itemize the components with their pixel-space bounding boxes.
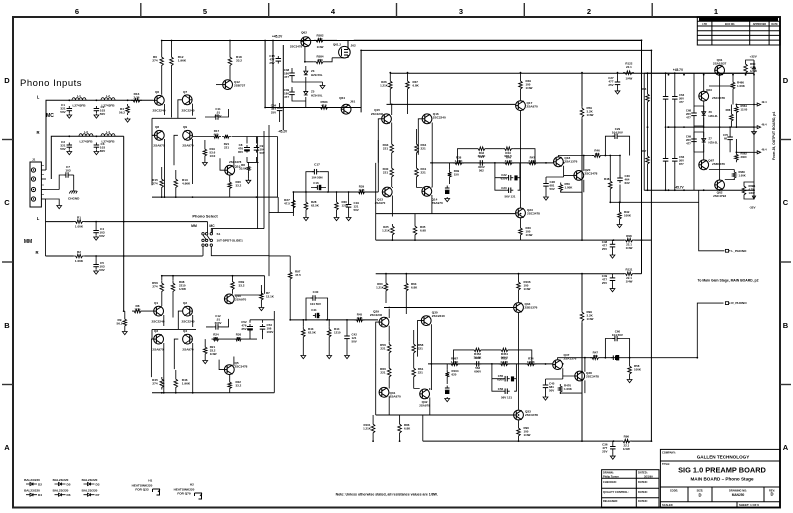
svg-text:22.1: 22.1 [626,65,632,69]
svg-text:600V: 600V [215,321,222,325]
resistor R454 [499,348,510,352]
transistor Q62 [301,37,311,47]
resistor R63 [404,281,408,293]
svg-text:Philip Turner: Philip Turner [603,474,619,478]
svg-text:1.21K: 1.21K [376,285,385,289]
capacitor C49 [612,275,614,278]
svg-text:R68: R68 [726,108,731,112]
svg-text:TITLE:: TITLE: [662,462,670,466]
svg-text:2SC2240: 2SC2240 [370,313,383,317]
wire switch MM side [85,222,290,256]
svg-text:2SA970: 2SA970 [432,201,443,205]
svg-text:2SA970: 2SA970 [527,105,538,109]
capacitor C4 [95,222,97,228]
resistor R27 [292,198,296,210]
wire MC R input [51,136,123,179]
resistor R43C [301,327,305,339]
svg-text:49.4: 49.4 [761,148,767,152]
svg-text:1/4W: 1/4W [179,287,186,291]
ground [259,306,264,311]
ground [752,130,757,135]
ground [544,196,549,201]
svg-text:CODE:: CODE: [670,488,678,492]
resistor R22 [228,380,232,391]
svg-text:2SC3478: 2SC3478 [585,172,598,176]
resistor R28 [304,200,308,212]
ground [203,359,208,364]
svg-text:25V: 25V [608,83,613,87]
resistor R49 [519,79,523,91]
svg-text:2SA970: 2SA970 [152,347,163,351]
ground [246,179,251,184]
resistor R58 [412,342,416,355]
svg-text:1210: 1210 [334,330,341,334]
resistor R35 [413,224,417,237]
wire Q3-Q4 to bottom [151,339,192,393]
svg-text:1.21K: 1.21K [363,426,372,430]
wire upper output node [603,156,725,251]
resistor R74 [525,362,536,366]
svg-text:960.: 960. [214,132,220,136]
svg-text:Q61.2: Q61.2 [333,43,341,47]
wire stage2 top rail [390,72,754,74]
transistor Q6 [154,95,164,105]
resistor R20 [228,180,232,190]
svg-text:3300: 3300 [741,155,747,159]
capacitor C50 [474,363,477,365]
capacitor C84 [279,106,281,109]
svg-text:2.26: 2.26 [359,188,365,192]
svg-text:HZ9-2L: HZ9-2L [709,114,719,118]
transistor Q64 [341,104,351,114]
transistor Q12 [223,80,233,90]
wire MC select verticals [258,125,279,276]
resistor R41 [415,166,419,179]
ground [94,236,99,241]
svg-text:2SC2240: 2SC2240 [432,314,445,318]
wire Q8-Q9 emitters to bottom rail [152,135,193,197]
transistor Q31 [379,387,389,397]
svg-text:C: C [783,198,789,207]
svg-text:600V: 600V [474,369,481,373]
svg-text:274: 274 [152,58,157,62]
ground [203,161,208,166]
capacitor C55 [503,378,506,380]
svg-text:221: 221 [236,336,241,340]
svg-text:BAL23/220: BAL23/220 [53,489,69,493]
resistor R59 [580,106,584,119]
capacitor C21 [478,162,481,164]
resistor R12 [170,55,174,68]
svg-text:3.32K: 3.32K [528,159,537,163]
capacitor C42 [346,334,348,337]
svg-text:35V: 35V [238,150,243,154]
wire feedback loop lower [454,350,532,364]
svg-text:APPROVED: APPROVED [753,23,767,26]
svg-text:50V: 50V [549,388,554,392]
svg-text:-32V: -32V [749,206,755,210]
inductor L4 [101,134,115,137]
capacitor C36 [612,444,614,447]
capacitor C56 [503,390,506,392]
transistor Q8 [154,130,164,140]
resistor R29 [357,190,367,194]
svg-text:J62: J62 [351,44,356,48]
svg-text:2.26: 2.26 [357,316,363,320]
svg-text:221: 221 [380,346,385,350]
capacitor C68 [693,111,695,114]
svg-text:1: 1 [714,7,718,16]
svg-text:C17: C17 [314,163,320,167]
resistor R67 sideways [646,154,650,166]
svg-text:630V: 630V [501,176,508,180]
svg-text:1/4W: 1/4W [317,45,324,49]
capacitor C12 [213,326,216,328]
capacitor C66 [674,156,676,159]
wire Q1-Q2 [143,311,196,339]
wire output stage lower [546,358,595,393]
wire switch MC side [211,229,269,256]
svg-text:DRAWING NO:: DRAWING NO: [729,488,747,492]
svg-text:D: D [770,492,773,497]
transistor Q16 [422,114,432,124]
svg-text:274: 274 [152,381,157,385]
svg-text:620: 620 [452,372,457,376]
capacitor C39 [291,90,293,93]
ground [304,216,309,221]
svg-text:DRAWN:: DRAWN: [603,471,614,475]
svg-text:1/4W: 1/4W [524,433,531,437]
svg-text:L_PHONO: L_PHONO [731,249,747,253]
wire bus C upper [581,73,583,240]
wire RIAA upper main [293,191,378,193]
svg-text:1/4W: 1/4W [625,77,632,81]
ground [445,197,450,202]
svg-text:SHEET: 1 OF 6: SHEET: 1 OF 6 [739,503,759,507]
svg-text:R2: R2 [77,250,81,254]
capacitor C29 loop [605,136,629,155]
svg-text:2SC3478: 2SC3478 [586,375,599,379]
ground [345,354,350,359]
svg-text:6.8K: 6.8K [404,426,411,430]
resistor R15 [160,177,164,190]
svg-text:221: 221 [380,370,385,374]
svg-text:2SB737: 2SB737 [234,84,245,88]
svg-text:C40: C40 [313,290,319,294]
svg-text:2SC2240: 2SC2240 [153,109,166,113]
ground [346,216,351,221]
capacitor C9 [256,145,258,148]
transistor Q62B [715,180,725,190]
connector output pin 3 [757,151,760,154]
resistor R98 [171,281,175,293]
resistor R4 [126,104,130,115]
capacitor C3 [68,143,70,146]
svg-text:C23: C23 [501,186,507,190]
svg-text:1.21K: 1.21K [380,83,389,87]
capacitor C65 [665,156,667,159]
svg-text:221: 221 [224,145,229,149]
svg-text:DATED:: DATED: [638,471,648,475]
resistor R6B1 [742,184,746,197]
svg-text:100K: 100K [634,367,642,371]
wire Q6-Q7 bases [152,100,196,136]
svg-text:2: 2 [587,7,591,16]
resistor R45C [355,318,365,322]
revision record table [697,17,780,45]
svg-text:D2: D2 [38,483,42,487]
svg-text:2.26: 2.26 [134,307,140,311]
svg-text:33.2: 33.2 [236,383,242,387]
wire stage2 bottom rail [376,239,624,241]
resistor R101 [371,422,375,435]
svg-text:150: 150 [593,354,598,358]
resistor R9 [123,317,127,328]
svg-text:1/4W: 1/4W [587,317,594,321]
resistor R42 [476,147,487,151]
resistor R60B [384,281,388,293]
ground [445,397,450,402]
svg-text:REVISION RECORD: REVISION RECORD [728,17,752,21]
svg-text:BAL23/220: BAL23/220 [24,489,40,493]
svg-text:ECO NO.: ECO NO. [725,23,735,26]
svg-text:Q4: Q4 [183,329,187,333]
svg-text:C16: C16 [313,181,319,185]
transistor Q61 [715,65,725,75]
wire reg verticals [644,73,754,190]
svg-text:FOR Q79: FOR Q79 [177,492,191,496]
resistor R21 [222,135,231,139]
capacitor C41 [313,315,316,317]
resistor R583 [319,106,330,110]
svg-text:D: D [783,76,789,85]
ground [334,216,339,221]
svg-text:2SA1376: 2SA1376 [564,357,577,361]
svg-text:BAL23/220: BAL23/220 [24,478,40,482]
resistor R39B [448,170,452,179]
svg-text:25V: 25V [269,61,274,65]
wire signal line upper [430,162,553,164]
svg-text:25V: 25V [602,281,607,285]
svg-text:R: R [35,250,38,255]
inductor L3 [79,134,93,137]
capacitor C7 [63,174,66,176]
capacitor C6 [95,143,97,146]
wire Q15 Q16 columns [378,104,432,187]
ground [320,84,325,89]
svg-text:1/4W: 1/4W [626,246,633,250]
wire lower block verticals [162,276,233,318]
resistor R46 [174,377,178,389]
svg-text:Q1: Q1 [154,301,158,305]
resistor R562 sideways [735,152,739,162]
svg-text:221: 221 [418,370,423,374]
svg-text:3.32K: 3.32K [527,360,536,364]
capacitor C62 [665,94,667,97]
resistor R50 [559,183,563,193]
zener Z5 [304,91,308,95]
resistor R56B [387,342,391,355]
ground [67,150,72,155]
resistor R121 [624,272,635,276]
svg-text:56V 121: 56V 121 [501,396,512,400]
svg-text:DATED:: DATED: [638,480,648,484]
zener Z7 [702,139,706,143]
resistor R86 [398,422,402,435]
svg-text:56.2: 56.2 [116,321,122,325]
svg-text:C56: C56 [498,387,504,391]
svg-text:47.5: 47.5 [321,103,327,107]
connector output pin 2 [757,126,760,129]
svg-text:1.96K: 1.96K [178,58,187,62]
svg-text:R121: R121 [625,268,632,272]
svg-text:R48: R48 [604,177,610,181]
svg-text:R67: R67 [642,149,647,153]
resistor R38 [453,161,464,165]
chassis ground CHGND [73,175,75,189]
ground [610,254,615,259]
svg-text:1.00K: 1.00K [739,173,746,177]
svg-text:RELEASED:: RELEASED: [603,499,618,503]
svg-text:62.5K: 62.5K [308,330,317,334]
capacitor C22 [506,177,509,179]
transistor Q18 [554,157,564,167]
resistor R122 [623,71,634,75]
capacitor C70 [729,135,731,138]
ground [543,396,548,401]
transistor Q30 [421,316,431,326]
resistor R19 [203,147,207,158]
svg-text:Q3: Q3 [154,329,158,333]
svg-text:D5: D5 [67,483,71,487]
svg-text:R98: R98 [626,234,632,238]
wire lower block right edge [264,276,266,294]
resistor R34 [415,142,419,155]
svg-text:2SB1376: 2SB1376 [712,162,725,166]
svg-text:+45.7V: +45.7V [673,68,684,72]
resistor R26B [388,79,392,91]
svg-text:C50: C50 [475,356,481,360]
wire C55 C56 loop [492,364,516,391]
svg-text:1/4W: 1/4W [750,69,757,73]
resistor R564 [735,105,739,115]
svg-text:2SA1376: 2SA1376 [564,160,577,164]
resistor R66 sideways [646,92,650,104]
resistor R16 [131,99,142,103]
capacitor C8 [246,145,248,148]
svg-text:C41: C41 [311,308,317,312]
capacitor C1 [68,106,70,109]
transistor Q32 [420,389,430,399]
wire JFET source [305,47,345,62]
resistor R45 [160,377,164,389]
svg-text:SIG 1.0 PREAMP BOARD: SIG 1.0 PREAMP BOARD [678,466,766,475]
svg-text:D3: D3 [96,483,100,487]
svg-text:477: 477 [284,75,289,79]
transistor Q33 [514,410,524,420]
transistor Q10 [225,165,235,175]
svg-text:1/4W: 1/4W [626,280,633,284]
svg-text:50V: 50V [354,208,359,212]
svg-text:1.00K: 1.00K [565,185,574,189]
capacitor C48 [612,242,614,245]
svg-text:2SC2240: 2SC2240 [371,112,384,116]
svg-text:A: A [4,443,10,452]
svg-text:D6: D6 [67,493,71,497]
capacitor C53 [262,324,264,327]
ground [94,114,99,119]
transistor Q20 [574,171,584,181]
svg-text:L2: L2 [106,94,110,98]
svg-text:562: 562 [479,168,484,172]
svg-text:Q8: Q8 [155,125,159,129]
ground [94,150,99,155]
svg-text:1.00K: 1.00K [75,225,84,229]
svg-text:12.00: 12.00 [741,107,748,111]
svg-text:50V: 50V [60,110,66,114]
resistor R47 [527,161,538,165]
svg-text:1/4W: 1/4W [210,352,217,356]
capacitor C19 [348,202,350,205]
svg-text:274: 274 [152,181,157,185]
svg-text:+32V: +32V [750,55,757,59]
svg-text:BAL23/220: BAL23/220 [82,478,98,482]
svg-text:HZ9-50L: HZ9-50L [311,94,323,98]
svg-text:104 50V: 104 50V [310,302,321,306]
wire bus B [650,50,652,441]
resistor R960 [733,170,737,180]
svg-text:4.12K: 4.12K [500,360,509,364]
resistor R48B [519,226,523,237]
capacitor C16 [315,187,318,189]
svg-text:2SC4793: 2SC4793 [713,194,726,198]
svg-text:50V: 50V [99,234,105,238]
svg-text:Q2: Q2 [183,301,187,305]
capacitor C52 [249,324,251,327]
svg-text:1.00K: 1.00K [737,84,746,88]
resistor R60D [744,62,748,75]
transistor Q5 [224,365,234,375]
resistor R58B [628,364,632,376]
svg-text:R1: R1 [77,216,81,220]
resistor R25 [391,224,395,237]
resistor R40 [390,166,394,179]
capacitor C61 electrolytic [611,357,614,359]
svg-text:-45.2V: -45.2V [278,130,288,134]
svg-text:MC: MC [46,113,54,119]
svg-text:2SA970: 2SA970 [419,404,430,408]
svg-text:56V 121: 56V 121 [505,195,516,199]
wire MC R to lower block [123,136,125,311]
svg-text:6: 6 [75,7,79,16]
svg-text:47.5: 47.5 [317,58,323,62]
resistor R61 [412,366,416,379]
resistor R8 [132,309,143,313]
transistor Q9 [183,130,193,140]
svg-text:68: 68 [724,136,727,140]
svg-text:MAIN BOARD – Phono Stage: MAIN BOARD – Phono Stage [690,477,753,482]
resistor R584 [314,60,325,64]
resistor R476 [590,356,600,360]
wire to C8 C9 cluster [193,137,278,198]
wire bottom rail first stage [152,196,278,198]
resistor R8B [247,165,251,173]
capacitor C69 [693,137,695,140]
wire reg pins [736,105,757,153]
svg-text:10T-DPDT-SLIDE1: 10T-DPDT-SLIDE1 [217,239,244,243]
svg-text:D: D [698,493,701,498]
svg-text:2SC3478: 2SC3478 [527,212,540,216]
